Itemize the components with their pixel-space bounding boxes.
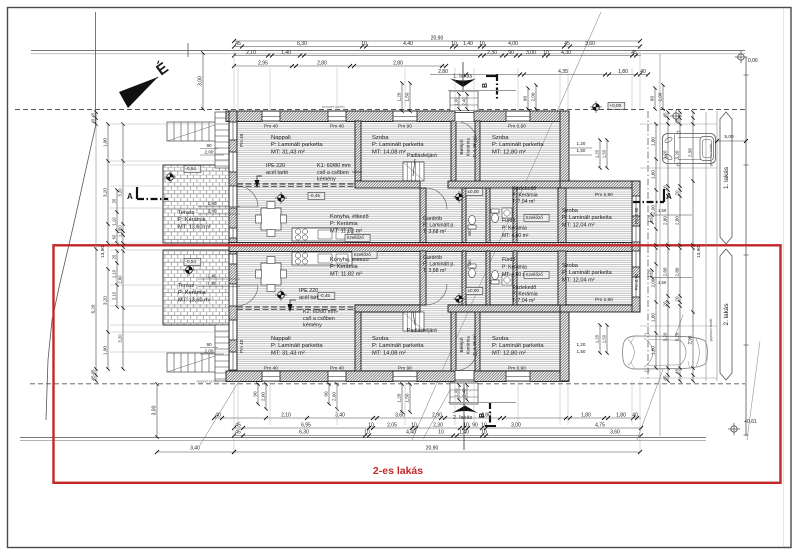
svg-text:1,50: 1,50 xyxy=(405,92,410,101)
svg-text:-0,45: -0,45 xyxy=(310,193,321,198)
svg-text:2,00: 2,00 xyxy=(205,349,214,354)
svg-text:13,90: 13,90 xyxy=(100,246,105,258)
svg-text:Közlekedő: Közlekedő xyxy=(512,186,536,192)
svg-text:1,20: 1,20 xyxy=(577,342,586,347)
svg-text:90: 90 xyxy=(508,50,514,56)
svg-text:1,80: 1,80 xyxy=(651,137,656,146)
svg-text:1,50: 1,50 xyxy=(658,280,667,285)
svg-text:10: 10 xyxy=(451,41,457,47)
svg-text:40: 40 xyxy=(215,412,221,418)
svg-text:2,05: 2,05 xyxy=(387,422,397,428)
svg-text:2,00: 2,00 xyxy=(205,150,214,155)
svg-text:2,40: 2,40 xyxy=(208,274,217,279)
svg-text:Közlekedő: Közlekedő xyxy=(512,285,536,291)
svg-text:P: Laminált parketta: P: Laminált parketta xyxy=(492,343,544,349)
svg-text:1,90: 1,90 xyxy=(103,346,108,355)
svg-text:1,20: 1,20 xyxy=(647,269,652,278)
svg-text:2,00: 2,00 xyxy=(651,278,656,287)
svg-text:90: 90 xyxy=(206,342,212,347)
svg-text:1,20: 1,20 xyxy=(397,393,402,402)
svg-text:2,00: 2,00 xyxy=(261,392,266,401)
svg-text:3,00: 3,00 xyxy=(152,405,158,415)
svg-text:kémény: kémény xyxy=(303,323,322,329)
svg-text:T: 7,04 m²: T: 7,04 m² xyxy=(512,298,535,304)
svg-text:40: 40 xyxy=(640,69,646,75)
svg-text:45: 45 xyxy=(91,369,96,375)
svg-text:Gardrób: Gardrób xyxy=(423,216,442,222)
svg-text:+0,00: +0,00 xyxy=(610,103,622,108)
svg-text:1,40: 1,40 xyxy=(463,41,473,47)
svg-text:Pm 40: Pm 40 xyxy=(330,366,344,372)
svg-text:2. lakás: 2. lakás xyxy=(723,303,730,325)
svg-text:2,95: 2,95 xyxy=(258,60,268,66)
svg-text:3,00: 3,00 xyxy=(198,76,204,86)
svg-text:P: Laminált parketta: P: Laminált parketta xyxy=(271,142,323,148)
svg-text:45: 45 xyxy=(91,118,96,123)
svg-text:1,40: 1,40 xyxy=(281,50,291,56)
svg-text:1,90: 1,90 xyxy=(103,138,108,147)
svg-text:2,40: 2,40 xyxy=(462,97,467,106)
svg-text:MT: 12,80 m²: MT: 12,80 m² xyxy=(492,350,526,356)
svg-text:45: 45 xyxy=(235,41,241,47)
svg-text:45: 45 xyxy=(675,118,680,124)
svg-text:-0,54: -0,54 xyxy=(186,166,197,171)
svg-text:2,00: 2,00 xyxy=(531,92,536,101)
svg-text:3,60: 3,60 xyxy=(610,430,620,436)
svg-text:2,40: 2,40 xyxy=(208,209,217,214)
svg-text:10: 10 xyxy=(481,422,487,428)
svg-text:2,80: 2,80 xyxy=(675,267,680,276)
svg-text:Terasz: Terasz xyxy=(178,283,195,289)
svg-text:10: 10 xyxy=(411,422,417,428)
svg-text:45: 45 xyxy=(235,430,241,436)
svg-text:T: 7,04 m²: T: 7,04 m² xyxy=(512,199,535,205)
svg-text:Kerámia: Kerámia xyxy=(466,138,472,156)
svg-text:1,00: 1,00 xyxy=(454,97,459,106)
svg-text:20,90: 20,90 xyxy=(426,446,439,452)
svg-text:20: 20 xyxy=(663,185,668,191)
svg-text:45: 45 xyxy=(564,41,570,47)
svg-text:MT: 31,43 m²: MT: 31,43 m² xyxy=(271,149,305,155)
svg-text:4,75: 4,75 xyxy=(595,422,605,428)
svg-text:3,60: 3,60 xyxy=(585,41,595,47)
svg-text:Pm 90: Pm 90 xyxy=(398,124,412,130)
svg-text:P: Kerámia: P: Kerámia xyxy=(502,225,527,231)
svg-text:-0,54: -0,54 xyxy=(186,259,197,264)
svg-text:2,80: 2,80 xyxy=(663,267,668,276)
svg-text:6,20: 6,20 xyxy=(91,304,96,313)
svg-text:45: 45 xyxy=(91,112,96,117)
svg-text:1,60: 1,60 xyxy=(651,313,656,322)
svg-text:2,80: 2,80 xyxy=(481,412,491,418)
svg-text:3,20: 3,20 xyxy=(118,334,123,343)
svg-text:2,10: 2,10 xyxy=(112,291,117,300)
svg-text:Pm 0,90: Pm 0,90 xyxy=(634,207,639,224)
svg-text:Kerámia: Kerámia xyxy=(466,336,472,354)
svg-text:4,40: 4,40 xyxy=(403,41,413,47)
svg-text:90: 90 xyxy=(253,391,258,397)
svg-text:MT: 12,80 m²: MT: 12,80 m² xyxy=(492,149,526,155)
svg-text:1,80: 1,80 xyxy=(208,201,217,206)
svg-text:1,50: 1,50 xyxy=(577,148,586,153)
svg-text:P: Kerámia: P: Kerámia xyxy=(178,290,207,296)
svg-text:Pm 0,90: Pm 0,90 xyxy=(634,273,639,290)
svg-text:1,50: 1,50 xyxy=(577,349,586,354)
svg-text:4,30: 4,30 xyxy=(561,50,571,56)
svg-text:20,90: 20,90 xyxy=(431,35,444,41)
svg-text:P: Kerámia: P: Kerámia xyxy=(330,264,359,270)
svg-text:45: 45 xyxy=(631,50,637,56)
svg-text:Szellőző: Szellőző xyxy=(526,215,544,220)
svg-text:2,95: 2,95 xyxy=(688,148,693,157)
svg-text:IPE 220: IPE 220 xyxy=(299,288,318,294)
svg-text:1,10: 1,10 xyxy=(112,217,117,226)
svg-text:P: Laminált parketta: P: Laminált parketta xyxy=(562,270,613,276)
svg-text:gépkocsi beálló: gépkocsi beálló xyxy=(709,143,713,166)
svg-text:kémény: kémény xyxy=(317,177,336,183)
svg-text:Szoba: Szoba xyxy=(562,208,579,214)
svg-text:3,20: 3,20 xyxy=(103,296,108,305)
svg-text:Szellőző: Szellőző xyxy=(354,252,372,257)
svg-text:Gardrób: Gardrób xyxy=(423,255,442,261)
svg-text:Pm 40: Pm 40 xyxy=(239,339,244,353)
svg-text:1,80: 1,80 xyxy=(618,69,628,75)
svg-text:MT: 12,04 m²: MT: 12,04 m² xyxy=(562,277,595,283)
svg-text:MT: 11,82 m²: MT: 11,82 m² xyxy=(330,271,362,277)
svg-text:Terasz: Terasz xyxy=(178,210,195,216)
svg-text:P: Laminált parketta: P: Laminált parketta xyxy=(372,343,424,349)
svg-text:90: 90 xyxy=(206,143,212,148)
svg-text:cső a csőben: cső a csőben xyxy=(303,316,335,322)
svg-text:6,30: 6,30 xyxy=(299,430,309,436)
svg-text:Fürdő: Fürdő xyxy=(502,218,515,224)
svg-text:Szoba: Szoba xyxy=(562,263,579,269)
svg-text:P: Laminált p.: P: Laminált p. xyxy=(423,223,455,229)
svg-text:Belépő: Belépő xyxy=(459,337,465,352)
svg-text:1,40: 1,40 xyxy=(459,430,469,436)
svg-text:2,80: 2,80 xyxy=(438,69,448,75)
svg-text:20: 20 xyxy=(663,301,668,307)
svg-text:20: 20 xyxy=(675,190,680,196)
svg-text:10: 10 xyxy=(368,422,374,428)
svg-text:P: Kerámia: P: Kerámia xyxy=(330,221,359,227)
svg-text:2,90: 2,90 xyxy=(432,412,442,418)
svg-text:P: Kerámia: P: Kerámia xyxy=(512,292,538,298)
svg-text:2,30: 2,30 xyxy=(487,50,497,56)
svg-text:MT: 13,60 m²: MT: 13,60 m² xyxy=(178,224,211,230)
svg-text:90: 90 xyxy=(650,96,655,102)
svg-text:Wc: Wc xyxy=(467,259,472,266)
svg-text:1,80: 1,80 xyxy=(616,412,626,418)
svg-text:1,50: 1,50 xyxy=(602,334,607,343)
svg-text:1,80: 1,80 xyxy=(581,412,591,418)
svg-text:1,80: 1,80 xyxy=(651,346,656,355)
svg-text:1,20: 1,20 xyxy=(577,141,586,146)
svg-text:Szoba: Szoba xyxy=(492,135,509,141)
svg-text:P: Kerámia: P: Kerámia xyxy=(512,193,538,199)
svg-text:Padlásfeljáró: Padlásfeljáró xyxy=(407,153,437,159)
svg-text:MT: 11,82 m²: MT: 11,82 m² xyxy=(330,228,362,234)
svg-text:1. lakás: 1. lakás xyxy=(723,167,730,189)
svg-text:2,80: 2,80 xyxy=(675,216,680,225)
svg-text:MT: 14,08 m²: MT: 14,08 m² xyxy=(372,149,406,155)
svg-text:tervezett kerítés: tervezett kerítés xyxy=(322,105,345,109)
svg-text:2,40: 2,40 xyxy=(462,388,467,397)
svg-text:1,20: 1,20 xyxy=(397,92,402,101)
svg-text:1,80: 1,80 xyxy=(208,281,217,286)
svg-text:Pm 40: Pm 40 xyxy=(239,133,244,147)
svg-text:10: 10 xyxy=(463,422,469,428)
svg-text:K1: 60/80 mm: K1: 60/80 mm xyxy=(317,163,351,169)
svg-text:Szoba: Szoba xyxy=(372,135,389,141)
svg-text:3,20: 3,20 xyxy=(663,332,668,341)
svg-text:2,00: 2,00 xyxy=(332,392,337,401)
svg-text:40: 40 xyxy=(632,412,638,418)
svg-text:10: 10 xyxy=(543,50,549,56)
svg-text:3,40: 3,40 xyxy=(190,446,200,452)
svg-text:6,30: 6,30 xyxy=(297,41,307,47)
svg-text:45: 45 xyxy=(675,369,680,375)
svg-text:MT: 13,60 m²: MT: 13,60 m² xyxy=(178,297,211,303)
svg-text:60: 60 xyxy=(112,234,117,239)
svg-text:20: 20 xyxy=(112,198,117,203)
svg-text:Pm 2,90: Pm 2,90 xyxy=(595,192,613,198)
svg-text:1,20: 1,20 xyxy=(595,334,600,343)
svg-text:Wc: Wc xyxy=(467,229,472,236)
svg-text:P: Laminált p.: P: Laminált p. xyxy=(423,262,455,268)
svg-text:6,95: 6,95 xyxy=(301,422,311,428)
svg-text:T: 3,68 m²: T: 3,68 m² xyxy=(423,229,446,235)
svg-text:20: 20 xyxy=(112,254,117,259)
svg-text:2,90: 2,90 xyxy=(118,275,123,284)
svg-text:P: Laminált parketta: P: Laminált parketta xyxy=(372,142,424,148)
svg-text:3,20: 3,20 xyxy=(675,150,680,159)
svg-text:2,80: 2,80 xyxy=(393,60,403,66)
svg-text:3,20: 3,20 xyxy=(675,332,680,341)
svg-text:45: 45 xyxy=(663,112,668,118)
svg-text:1,50: 1,50 xyxy=(405,393,410,402)
svg-text:1,50: 1,50 xyxy=(658,208,667,213)
svg-text:3,20: 3,20 xyxy=(663,150,668,159)
svg-text:5,00: 5,00 xyxy=(724,134,734,140)
svg-text:2,95: 2,95 xyxy=(688,335,693,344)
svg-text:2,10: 2,10 xyxy=(246,50,256,56)
svg-text:T: 3,68 m²: T: 3,68 m² xyxy=(423,268,446,274)
svg-text:45: 45 xyxy=(663,375,668,381)
svg-text:90: 90 xyxy=(523,96,528,102)
svg-text:4,40: 4,40 xyxy=(406,430,416,436)
svg-text:Pm 0,90: Pm 0,90 xyxy=(508,366,526,372)
svg-text:3,20: 3,20 xyxy=(118,188,123,197)
svg-text:90: 90 xyxy=(324,391,329,397)
svg-text:±0,00: ±0,00 xyxy=(468,189,480,194)
svg-text:Szellőző: Szellőző xyxy=(526,272,544,277)
svg-text:2,80: 2,80 xyxy=(663,216,668,225)
svg-text:Pm 40: Pm 40 xyxy=(264,124,278,130)
svg-text:2,80: 2,80 xyxy=(317,60,327,66)
svg-text:A: A xyxy=(127,192,133,201)
svg-text:1,20: 1,20 xyxy=(595,149,600,158)
svg-text:10: 10 xyxy=(438,430,444,436)
svg-text:Pm 0,90: Pm 0,90 xyxy=(508,124,526,130)
svg-text:Pm 40: Pm 40 xyxy=(264,366,278,372)
svg-text:13,90: 13,90 xyxy=(696,246,701,258)
svg-text:T: 4,48 m²: T: 4,48 m² xyxy=(472,334,478,356)
svg-text:4,00: 4,00 xyxy=(508,41,518,47)
svg-text:Szoba: Szoba xyxy=(492,336,509,342)
svg-text:Fürdő: Fürdő xyxy=(502,257,515,263)
svg-text:acél tartó: acél tartó xyxy=(266,170,288,176)
svg-text:Szellőző: Szellőző xyxy=(347,235,365,240)
svg-text:K2: 60/80 mm-: K2: 60/80 mm- xyxy=(303,309,339,315)
svg-text:1,20: 1,20 xyxy=(647,214,652,223)
svg-text:10: 10 xyxy=(479,41,485,47)
svg-text:Padlásfeljáró: Padlásfeljáró xyxy=(407,328,437,334)
svg-text:1,60: 1,60 xyxy=(651,170,656,179)
svg-text:1,10: 1,10 xyxy=(112,269,117,278)
svg-text:1,00: 1,00 xyxy=(454,388,459,397)
svg-text:T: 4,48 m²: T: 4,48 m² xyxy=(472,136,478,158)
svg-text:±0,00: ±0,00 xyxy=(468,288,480,293)
svg-text:MT: 14,08 m²: MT: 14,08 m² xyxy=(372,350,406,356)
svg-text:cső a csőben: cső a csőben xyxy=(317,170,349,176)
svg-text:3,00: 3,00 xyxy=(526,50,536,56)
svg-text:10: 10 xyxy=(364,430,370,436)
svg-text:Nappali: Nappali xyxy=(271,336,291,342)
svg-text:Pm 90: Pm 90 xyxy=(398,366,412,372)
svg-text:2-es lakás: 2-es lakás xyxy=(373,465,423,477)
svg-text:20: 20 xyxy=(675,296,680,302)
svg-text:P: Laminált parketta: P: Laminált parketta xyxy=(271,343,323,349)
svg-text:MT: 12,04 m²: MT: 12,04 m² xyxy=(562,222,595,228)
svg-text:MT: 31,43 m²: MT: 31,43 m² xyxy=(271,350,305,356)
svg-text:Konyha, étkező: Konyha, étkező xyxy=(330,214,369,220)
svg-text:P: Kerámia: P: Kerámia xyxy=(178,217,207,223)
svg-text:P: Laminált parketta: P: Laminált parketta xyxy=(562,215,613,221)
svg-text:Szoba: Szoba xyxy=(372,336,389,342)
svg-text:P: Laminált parketta: P: Laminált parketta xyxy=(492,142,544,148)
svg-text:IPE 220: IPE 220 xyxy=(266,163,285,169)
svg-text:2,30: 2,30 xyxy=(433,422,443,428)
svg-text:P: Kerámia: P: Kerámia xyxy=(502,264,527,270)
svg-text:-0,45: -0,45 xyxy=(320,293,331,298)
svg-text:2,10: 2,10 xyxy=(281,412,291,418)
svg-text:2,00: 2,00 xyxy=(658,92,663,101)
svg-text:+0,61: +0,61 xyxy=(744,419,757,425)
svg-text:10: 10 xyxy=(481,430,487,436)
svg-text:Pm 40: Pm 40 xyxy=(330,124,344,130)
svg-text:2,00: 2,00 xyxy=(651,205,656,214)
svg-text:MT: 4,60 m²: MT: 4,60 m² xyxy=(502,233,529,239)
svg-text:gépkocsi beálló: gépkocsi beálló xyxy=(709,318,713,341)
svg-text:Pm 2,90: Pm 2,90 xyxy=(595,297,613,303)
svg-text:4,35: 4,35 xyxy=(558,69,568,75)
svg-text:Belépő: Belépő xyxy=(459,139,465,154)
svg-text:0,06: 0,06 xyxy=(748,58,758,64)
svg-text:3,20: 3,20 xyxy=(103,188,108,197)
svg-text:B: B xyxy=(482,83,489,88)
svg-text:10: 10 xyxy=(361,41,367,47)
svg-text:3,40: 3,40 xyxy=(335,412,345,418)
svg-text:1,50: 1,50 xyxy=(602,149,607,158)
svg-text:45: 45 xyxy=(91,375,96,381)
svg-text:3,00: 3,00 xyxy=(511,422,521,428)
svg-text:Nappali: Nappali xyxy=(271,135,291,141)
svg-text:90: 90 xyxy=(472,422,478,428)
